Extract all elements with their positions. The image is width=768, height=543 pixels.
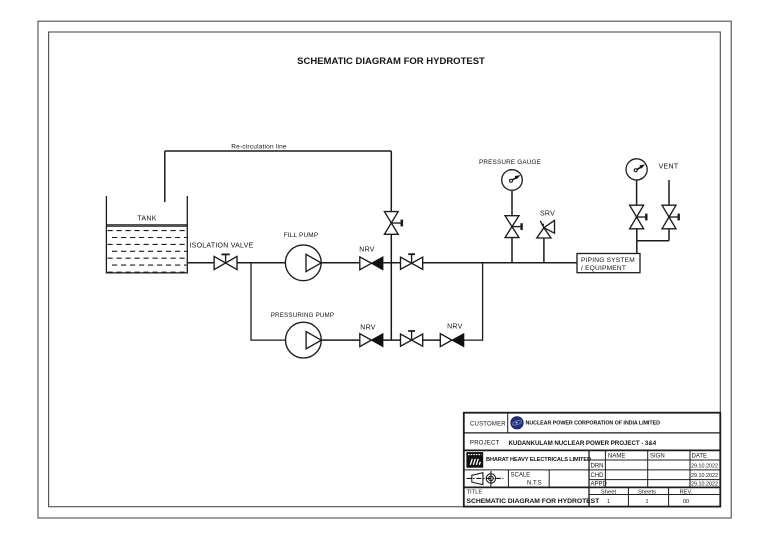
svg-text:Sheets: Sheets [638,489,656,495]
svg-text:NUCLEAR POWER CORPORATION OF I: NUCLEAR POWER CORPORATION OF INDIA LIMIT… [526,421,661,427]
NPCIL logo [511,417,523,429]
wire GV2 to NRV3 [423,339,441,341]
svg-text:PROJECT: PROJECT [470,441,500,447]
svg-text:ISOLATION VALVE: ISOLATION VALVE [189,243,253,250]
wire branch down to pressuring pump [251,263,286,340]
NRV3 non-return valve [440,334,464,347]
svg-text:NRV: NRV [360,324,375,331]
wire re-circulation line horizontal [165,150,391,152]
svg-text:PRESSURING PUMP: PRESSURING PUMP [271,312,335,319]
SRV safety relief valve [537,220,555,238]
projection symbol [467,471,504,486]
wire gauge2 valve lower stub [636,229,638,241]
svg-text:PRESSURE GAUGE: PRESSURE GAUGE [479,159,541,166]
wire vent open pipe [668,180,670,205]
svg-text:APPD: APPD [591,481,608,487]
wire GV1 to piping system box [423,262,577,264]
svg-text:NAME: NAME [608,453,625,459]
wire pressuring pump to NRV2 [321,339,360,341]
svg-text:CUSTOMER: CUSTOMER [470,422,506,428]
svg-text:29.10.2022: 29.10.2022 [691,463,718,469]
svg-text:REV.: REV. [680,489,693,495]
svg-text:29.10.2022: 29.10.2022 [691,473,718,479]
pressure gauge PG1 [502,170,523,191]
svg-text:SCALE: SCALE [511,472,531,478]
fill pump [285,245,321,281]
svg-text:Re-circulation line: Re-circulation line [231,143,287,150]
wire pressure gauge branch [511,238,513,263]
wire fill pump to NRV1 [321,262,360,264]
svg-text:SRV: SRV [540,211,555,218]
svg-text:1: 1 [645,499,648,505]
pressuring pump [286,322,322,358]
svg-text:00: 00 [683,499,689,505]
valve GV2 on pressuring line [401,331,423,346]
svg-text:1: 1 [607,499,610,505]
wire isolation valve to fill pump [237,262,285,264]
wire SRV drop [543,238,545,263]
wire riser top [390,151,392,212]
wire tank outlet [187,262,214,264]
wire re-circulation drop into tank [164,151,166,202]
valve below gauge2 [630,205,647,229]
BHEL logo [466,452,483,468]
svg-text:TITLE: TITLE [467,490,483,496]
svg-text:NRV: NRV [447,324,462,331]
svg-text:PIPING SYSTEM: PIPING SYSTEM [581,257,635,264]
svg-text:NRV: NRV [359,247,374,254]
svg-text:VENT: VENT [659,164,679,171]
tank [106,196,187,273]
svg-text:/ EQUIPMENT: / EQUIPMENT [581,265,626,272]
isolation valve [214,254,237,269]
wire riser mid [390,234,392,262]
svg-text:SIGN: SIGN [650,453,665,459]
NRV2 non-return valve [360,334,383,347]
vent valve [662,205,679,229]
wire box riser [636,241,638,254]
NRV1 non-return valve [360,257,383,270]
svg-text:DRN: DRN [591,463,604,469]
wire jog horizontal [637,240,669,242]
svg-text:FILL PUMP: FILL PUMP [284,232,319,239]
svg-text:N.T.S: N.T.S [527,481,542,487]
svg-text:SCHEMATIC DIAGRAM FOR HYDROTES: SCHEMATIC DIAGRAM FOR HYDROTEST [467,498,601,505]
wire riser lower [390,263,392,340]
svg-text:SCHEMATIC DIAGRAM FOR HYDROTES: SCHEMATIC DIAGRAM FOR HYDROTEST [297,56,485,67]
svg-text:BHARAT HEAVY ELECTRICALS LIMIT: BHARAT HEAVY ELECTRICALS LIMITED [486,457,591,463]
wire gauge stem [511,190,513,215]
valve recirculation [384,212,401,235]
wire NRV1 to valve GV1 [383,262,401,264]
svg-text:Sheet: Sheet [601,489,617,495]
svg-text:CHD: CHD [591,473,605,479]
wire NRV2 to valve GV2 [383,339,401,341]
valve GV1 on main line [401,254,423,269]
wire gauge2 stem [636,180,638,205]
pressure gauge PG2 [626,159,647,180]
svg-text:DATE: DATE [692,453,708,459]
wire vent lower stub [668,229,670,241]
svg-text:TANK: TANK [137,216,156,223]
svg-text:29.10.2022: 29.10.2022 [691,481,718,487]
wire NRV3 riser up to main line [464,263,483,340]
title block frame [464,413,721,507]
svg-text:KUDANKULAM NUCLEAR POWER PROJE: KUDANKULAM NUCLEAR POWER PROJECT - 3&4 [509,440,657,447]
piping system equipment box [577,254,640,273]
valve below pressure gauge [505,216,522,238]
